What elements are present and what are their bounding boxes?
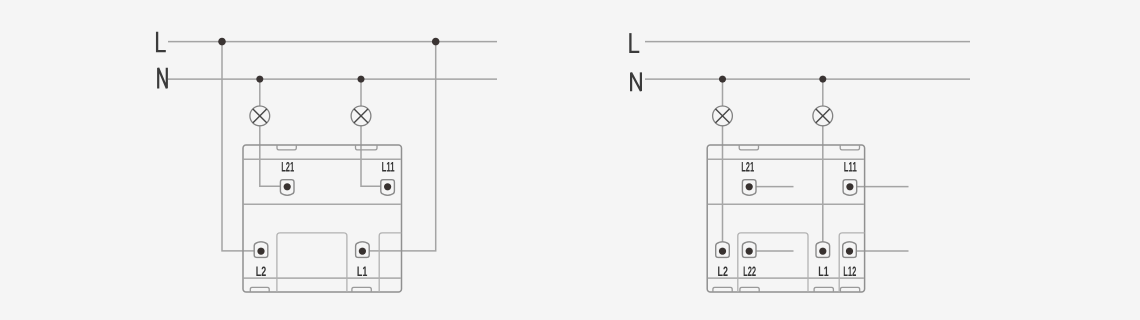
svg-text:L2: L2	[256, 264, 266, 279]
svg-text:L11: L11	[382, 159, 395, 174]
svg-text:L1: L1	[818, 264, 829, 279]
svg-text:L21: L21	[741, 159, 754, 174]
svg-text:L1: L1	[357, 264, 368, 279]
svg-text:L2: L2	[718, 264, 728, 279]
svg-text:L11: L11	[844, 159, 857, 174]
svg-text:L12: L12	[843, 264, 856, 279]
svg-text:L21: L21	[281, 159, 294, 174]
svg-text:L22: L22	[743, 264, 756, 279]
